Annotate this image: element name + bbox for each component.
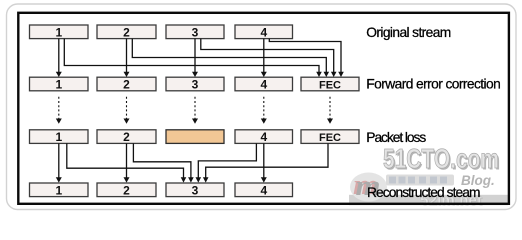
svg-text:51CTO.com: 51CTO.com [383, 143, 499, 174]
wire r3box2 -> r4box3 [133, 143, 191, 177]
arrowhead FEC c [331, 72, 337, 77]
arrowhead into row4 box4 [261, 177, 267, 182]
svg-text:FEC: FEC [319, 132, 341, 144]
wire v arrow r3c2 [126, 143, 128, 177]
svg-text:Forward error correction: Forward error correction [366, 76, 501, 91]
arrowhead into row2 box3 [192, 72, 198, 77]
arrowhead FEC a [316, 72, 322, 77]
svg-text:2: 2 [123, 78, 130, 92]
wire r3FEC -> r4box3 [206, 143, 328, 177]
svg-text:4: 4 [260, 25, 267, 39]
row2 box 4 [235, 77, 293, 91]
svg-text:1: 1 [55, 78, 62, 92]
svg-text:FEC: FEC [319, 80, 341, 92]
row3 box 2 [97, 130, 156, 144]
arrowhead cluster a [181, 177, 187, 182]
row2 box FEC [301, 77, 359, 91]
row4 box 1 [30, 183, 89, 197]
watermark slogan box [386, 175, 454, 186]
wire v arrow 2->2 [126, 39, 128, 73]
row4 box 4 [235, 183, 293, 197]
svg-text:1: 1 [55, 183, 62, 197]
dashed arrowhead col3 [192, 119, 198, 124]
wire r3box4 -> r4box3 [198, 143, 256, 177]
row4 box 3 [166, 183, 224, 197]
svg-text:2: 2 [123, 130, 130, 144]
dashed arrowhead col4 [261, 119, 267, 124]
row2 box 3 [166, 77, 224, 91]
svg-text:3: 3 [192, 25, 199, 39]
svg-text:3: 3 [192, 183, 199, 197]
dashed arrowhead FEC [327, 119, 333, 124]
dashed wire FEC [329, 97, 331, 119]
wire v arrow 1->1 [58, 39, 60, 73]
svg-text:Packet loss: Packet loss [366, 130, 426, 145]
row3 box FEC [301, 130, 359, 144]
row1 box 4 [235, 25, 293, 39]
wire v arrow r3c1 [58, 143, 60, 177]
arrowhead into row4 box1 [56, 177, 62, 182]
wire v arrow r3c4 [263, 143, 265, 177]
svg-text:Original stream: Original stream [366, 25, 451, 40]
arrowhead cluster d [203, 177, 209, 182]
svg-text:4: 4 [260, 78, 267, 92]
wire r3box1 -> r4box3 [67, 143, 184, 177]
svg-text:1: 1 [55, 25, 62, 39]
svg-text:2: 2 [123, 25, 130, 39]
arrowhead cluster b [188, 177, 194, 182]
dashed arrowhead col1 [56, 119, 62, 124]
arrowhead into row4 box2 [124, 177, 130, 182]
row3 lost box (orange) [166, 130, 224, 144]
dashed wire col1 [58, 97, 60, 119]
svg-text:1: 1 [55, 130, 62, 144]
row2 box 1 [30, 77, 89, 91]
arrowhead FEC b [324, 72, 330, 77]
arrowhead into row2 box4 [261, 72, 267, 77]
dashed wire col4 [263, 97, 265, 119]
watermark slogan glyph blocks [389, 177, 447, 184]
wire v arrow 3->3 [194, 39, 196, 73]
row1 box 3 [166, 25, 224, 39]
svg-text:4: 4 [260, 130, 267, 144]
diagram black border [18, 13, 509, 204]
arrowhead cluster c [196, 177, 202, 182]
watermark logo circle [350, 173, 387, 202]
svg-text:3: 3 [192, 78, 199, 92]
row1 box 2 [97, 25, 156, 39]
svg-text:4: 4 [260, 183, 267, 197]
dashed wire col3 [194, 97, 196, 119]
watermark gray band [349, 195, 508, 205]
dashed arrowhead col2 [124, 119, 130, 124]
row2 box 2 [97, 77, 156, 91]
arrowhead into row2 box2 [124, 72, 130, 77]
wire box2 -> FEC [132, 39, 326, 73]
arrowhead FEC d [338, 72, 344, 77]
wire box3 -> FEC [201, 39, 334, 73]
wire box4 -> FEC [269, 39, 341, 73]
row1 box 1 [30, 25, 89, 39]
svg-text:2: 2 [123, 183, 130, 197]
row4 box 2 [97, 183, 156, 197]
row3 box 4 [235, 130, 293, 144]
wire v arrow 4->4 [263, 39, 265, 73]
svg-text:Reconstructed steam: Reconstructed steam [367, 185, 481, 200]
dashed wire col2 [126, 97, 128, 119]
arrowhead into row2 box1 [56, 72, 62, 77]
wire box1 -> FEC [64, 39, 319, 73]
row3 box 1 [30, 130, 89, 144]
